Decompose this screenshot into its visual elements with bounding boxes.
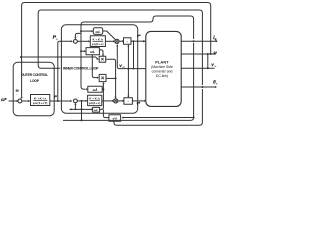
svg-text:q: q (56, 37, 58, 41)
arrow into upper multiplier top (102, 55, 104, 57)
wire d PI out (102, 100, 113, 102)
text d PI controller (89, 96, 101, 105)
arrow into lower multiplier bottom (102, 82, 104, 84)
block lower multiplier (99, 74, 106, 81)
arrow into d PI (86, 100, 88, 102)
plant output line theta (181, 86, 215, 88)
node dot d feedback riser (75, 109, 77, 111)
arrow Vdc into q divider (127, 44, 129, 46)
plant output line iq (181, 40, 216, 42)
node dot vq tap bottom (133, 68, 135, 70)
wire Vdc between dividers (127, 46, 129, 97)
node dot omega tap (20, 56, 22, 58)
arrow vd star into plant (144, 100, 146, 102)
block q divider (124, 38, 132, 45)
wire d feedback riser into circle (74, 104, 76, 109)
wire Vdc left run (117, 46, 146, 69)
arrow into dq transform (122, 117, 124, 119)
wire Vdc stub right (207, 54, 209, 68)
arrow omega into upper multiplier (97, 58, 99, 60)
arrow into d junction (112, 100, 114, 102)
wire to upper coupling block (81, 30, 92, 32)
block upper multiplier (99, 56, 106, 62)
summing junction q current (74, 40, 78, 44)
svg-text:-: - (77, 35, 79, 39)
svg-text:K + K /s: K + K /s (89, 96, 100, 100)
wire d error to d PI (77, 100, 86, 102)
wire into mid coupling block (81, 50, 85, 52)
svg-text:ωL: ωL (90, 50, 95, 54)
wire small block to lower multiplier riser (100, 84, 104, 110)
wire speed error to controller (22, 100, 30, 102)
arrow into upper coupling block (91, 30, 93, 32)
wire bottom feedback wrap (63, 43, 194, 120)
arrow into lower small block (91, 108, 93, 110)
node dot d branch on bottom wrap (81, 119, 83, 121)
wire iq ref rising (58, 41, 71, 101)
block q axis PI controller (90, 36, 105, 47)
svg-text:ω*: ω* (1, 97, 6, 102)
label plant title (151, 60, 173, 78)
mixing junction d (114, 99, 118, 103)
wire into dq transform right (123, 117, 194, 119)
wire speed controller output (50, 100, 71, 102)
arrow tail lower feedback (69, 108, 71, 110)
node dot Vdc stub top (207, 53, 209, 55)
block d axis PI controller (88, 95, 102, 105)
wire upper coupling diagonal to q junction (103, 31, 116, 40)
svg-text:DC-link): DC-link) (156, 74, 168, 78)
plant output line omega (181, 53, 215, 55)
arrow into mid coupling block (84, 50, 86, 52)
node dot vq tap top (133, 40, 135, 42)
arrow into omega lambda block (86, 88, 88, 90)
arrow into d junction top (115, 97, 117, 99)
node dot lower multiplier join (115, 77, 117, 79)
text q PI controller (92, 37, 104, 46)
svg-text:i*: i* (54, 95, 57, 99)
block lower small omega-L (93, 107, 100, 112)
wire q junction to divider (119, 40, 123, 42)
wire upper multiplier to d junction (106, 59, 116, 97)
svg-text:ωL: ωL (94, 108, 99, 112)
node dot iq branch (193, 40, 195, 42)
node dot iq feedback upper (80, 30, 82, 32)
wire omega lambda out stub (102, 88, 103, 90)
box outer control loop (13, 62, 54, 115)
box plant (146, 31, 181, 106)
svg-text:ω: ω (214, 49, 217, 54)
wire theta feedback top wrap (38, 10, 202, 85)
node dot iq line end (216, 40, 218, 42)
svg-text:v*: v* (137, 34, 141, 38)
arrow into d divider (122, 100, 124, 102)
svg-text:PLANT: PLANT (155, 60, 169, 65)
svg-text:K + K /s: K + K /s (92, 37, 103, 41)
node dot theta branch (201, 86, 203, 88)
block upper omega-L (93, 28, 102, 35)
wire current feedback wrap (81, 16, 194, 89)
svg-text:dc: dc (214, 66, 217, 68)
node dot vq star at plant (143, 40, 145, 42)
svg-text:÷: ÷ (127, 99, 129, 103)
node dot Vdc stub bottom (207, 67, 209, 69)
arrow into d summing bottom (74, 103, 76, 105)
arrow omega into speed summing (21, 97, 23, 99)
svg-text:v*: v* (137, 101, 141, 105)
fraction bar d PI (90, 99, 100, 101)
block mid omega-L (86, 48, 99, 55)
svg-text:ωλ: ωλ (93, 88, 98, 92)
plant output line Vdc right (181, 67, 214, 69)
wire q PI out (105, 40, 113, 42)
block omega lambda (88, 86, 102, 92)
node dot omega branch (210, 53, 212, 55)
wire dq transform left out (103, 109, 109, 117)
node dot mid coupling tap (80, 50, 82, 52)
wire lower multiplier out (106, 77, 116, 79)
block speed PI controller (31, 95, 50, 106)
arrow Vdc into d divider (127, 96, 129, 98)
arrow into speed controller (28, 100, 30, 102)
wire omega to multiplier (21, 57, 98, 59)
arrow into q current summing (71, 40, 73, 42)
summing junction d current (74, 99, 78, 103)
svg-text:÷: ÷ (126, 39, 128, 43)
arrow feedback into q summing top (74, 37, 76, 39)
wire omega star input (9, 100, 17, 102)
svg-text:K·+K·/s: K·+K·/s (34, 96, 47, 100)
arrow into lower multiplier left (97, 77, 99, 79)
wire stub vq tap (133, 41, 135, 68)
node dot omega line end (214, 53, 216, 55)
wire lower feedback horizontal (70, 108, 93, 110)
node dot d branch on lower wire (81, 108, 83, 110)
svg-text:eʳθ: eʳθ (113, 116, 118, 120)
wire d junction to d divider (118, 100, 123, 102)
svg-text:ωL: ωL (96, 30, 101, 34)
svg-text:INNER CONTROL LOOP: INNER CONTROL LOOP (63, 67, 99, 71)
node dot theta line end (215, 86, 217, 88)
fraction bar q PI (93, 41, 104, 43)
arrow into q divider (122, 40, 124, 42)
wire omega feedback top wrap (22, 3, 211, 97)
svg-text:OUTER CONTROL: OUTER CONTROL (21, 73, 48, 77)
wire q error to q PI (77, 40, 89, 42)
box inner control loop (61, 25, 137, 113)
wire vd star to plant (132, 100, 145, 102)
block d divider (124, 98, 132, 105)
svg-text:e: e (216, 83, 218, 86)
svg-text:-: - (16, 93, 18, 97)
node dot Vdc tap (127, 68, 129, 70)
wire d error branch down (81, 101, 83, 121)
label outer control loop (21, 73, 48, 83)
node dot d error branch (81, 100, 83, 102)
wire vq star to plant (131, 40, 145, 42)
svg-text:-: - (78, 95, 80, 99)
svg-text:(Machine Side: (Machine Side (151, 65, 173, 69)
wire mid coupling down to lower multiplier (92, 55, 97, 78)
arrow into d current summing (70, 100, 72, 102)
svg-text:pω(1+sT): pω(1+sT) (33, 101, 48, 105)
arrow into q PI (88, 40, 90, 42)
wire iq feedback elbow into q summing (75, 33, 81, 38)
multiplier cross lower (101, 77, 103, 80)
wire theta bottom wrap (114, 89, 202, 125)
arrow into q junction (113, 40, 115, 42)
summing junction speed (18, 99, 22, 103)
block dq transform (109, 115, 121, 121)
svg-text:pd(1+s): pd(1+s) (89, 101, 101, 105)
mixing junction q (115, 39, 119, 43)
node dot iq ref branch (57, 100, 59, 102)
wire mid coupling to upper multiplier top (99, 50, 103, 55)
svg-text:pq(1+s): pq(1+s) (92, 42, 104, 46)
multiplier cross upper (101, 58, 103, 60)
node dot omega star line (16, 100, 18, 102)
node dot dq tap (193, 117, 195, 119)
wire omega into speed summing (21, 97, 23, 98)
svg-text:LOOP: LOOP (30, 79, 40, 83)
text speed controller (33, 96, 48, 105)
node dot omega-lambda join (102, 88, 104, 90)
fraction bar speed PI (33, 99, 47, 101)
arrow Vdc into q junction bottom (116, 44, 118, 46)
